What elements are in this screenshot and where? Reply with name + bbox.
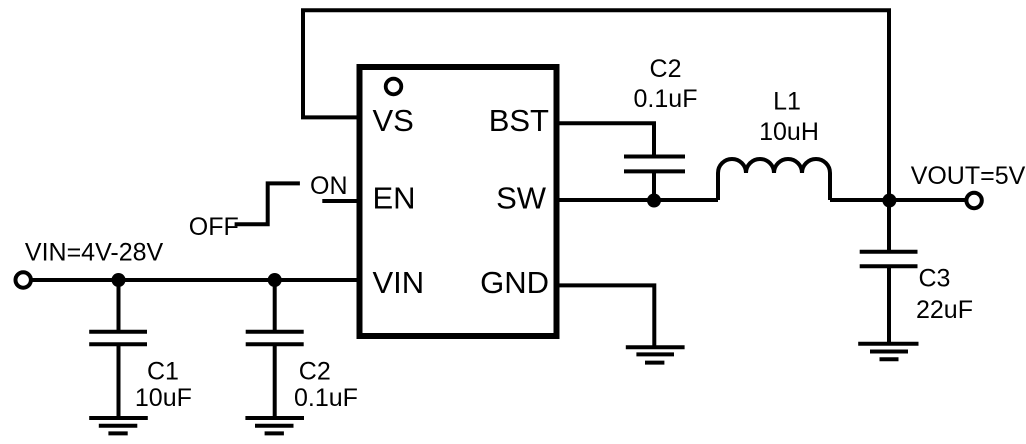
ground (C2 input) xyxy=(245,418,304,433)
ground (GND pin) xyxy=(626,347,685,362)
terminal VOUT xyxy=(966,193,981,208)
svg-text:SW: SW xyxy=(496,181,547,216)
wire GND pin xyxy=(560,285,655,345)
capacitor C2 (input) xyxy=(246,280,304,418)
svg-text:10uH: 10uH xyxy=(759,118,819,146)
svg-text:GND: GND xyxy=(480,265,549,300)
svg-text:VOUT=5V: VOUT=5V xyxy=(911,162,1026,190)
wire VS to top rail xyxy=(303,10,889,200)
svg-text:10uF: 10uF xyxy=(135,384,192,412)
svg-text:ON: ON xyxy=(310,172,348,200)
terminal VIN xyxy=(16,272,31,287)
wire BST to C2 xyxy=(560,123,655,156)
op-amp U1 xyxy=(360,67,557,336)
capacitor C1 xyxy=(89,280,147,418)
svg-text:0.1uF: 0.1uF xyxy=(634,85,698,113)
node C2 junction xyxy=(268,273,282,287)
node SW junction xyxy=(647,194,661,208)
svg-text:0.1uF: 0.1uF xyxy=(294,384,358,412)
ground (C1) xyxy=(89,418,148,433)
svg-text:BST: BST xyxy=(489,103,549,138)
node C1 junction xyxy=(112,273,126,287)
wire EN xyxy=(322,199,356,203)
wire SW xyxy=(560,198,719,202)
svg-text:EN: EN xyxy=(373,181,416,216)
inductor L1 xyxy=(718,159,830,200)
EN on/off step symbol xyxy=(235,183,300,224)
node VOUT junction xyxy=(882,194,896,208)
svg-text:L1: L1 xyxy=(773,88,801,116)
svg-text:VIN: VIN xyxy=(373,265,425,300)
svg-text:C1: C1 xyxy=(147,358,179,386)
svg-text:VS: VS xyxy=(373,103,414,138)
capacitor C3 xyxy=(860,200,918,344)
wire VIN xyxy=(31,278,357,282)
svg-text:22uF: 22uF xyxy=(916,296,973,324)
svg-text:C3: C3 xyxy=(919,265,951,293)
svg-text:VIN=4V-28V: VIN=4V-28V xyxy=(25,239,164,267)
svg-text:OFF: OFF xyxy=(189,213,239,241)
ground (C3) xyxy=(858,344,918,359)
capacitor C2 (boot) xyxy=(624,157,685,201)
svg-text:C2: C2 xyxy=(650,55,682,83)
pin 1 marker xyxy=(386,79,402,95)
wire L1 to VOUT xyxy=(830,198,967,202)
svg-text:C2: C2 xyxy=(299,358,331,386)
